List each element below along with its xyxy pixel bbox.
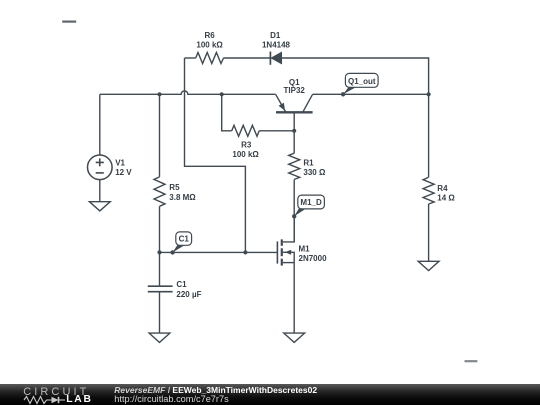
wire R4 bottom to ground (428, 204, 430, 261)
resistor R6 (196, 53, 224, 64)
svg-text:14 Ω: 14 Ω (437, 193, 455, 202)
wire R6 left lead (185, 57, 196, 59)
footer logo LAB (66, 394, 93, 405)
annotation dash top-left (62, 21, 76, 23)
svg-text:V1: V1 (115, 158, 125, 167)
label V1 value (115, 158, 132, 176)
net flag M1_D (294, 195, 324, 216)
node junction Q1 base / R3 / R1 (292, 129, 296, 133)
wire R5 top lead (159, 94, 161, 177)
node junction gate row / R5-C1 column (157, 250, 161, 254)
wire R3 branch from rail (222, 94, 232, 131)
svg-text:3.8 MΩ: 3.8 MΩ (169, 193, 196, 202)
ground below V1 (89, 202, 110, 211)
net flag Q1_out (343, 73, 378, 94)
svg-text:330 Ω: 330 Ω (303, 168, 326, 177)
transistor M1 (NMOS 2N7000) (277, 216, 294, 265)
label Q1 value (284, 78, 306, 95)
wire right column to R4 (428, 94, 430, 177)
wire C1 node down to capacitor (159, 252, 161, 285)
svg-text:R5: R5 (169, 183, 180, 192)
transistor Q1 (PNP TIP32) (276, 94, 313, 131)
svg-text:100 kΩ: 100 kΩ (196, 41, 223, 50)
svg-text:R4: R4 (437, 184, 448, 193)
wire V1 bottom lead (99, 180, 101, 202)
label C1 value (176, 280, 201, 299)
footer bar (0, 384, 540, 405)
label R3 value (232, 140, 259, 159)
svg-text:C1: C1 (179, 234, 190, 243)
resistor R4 (423, 177, 434, 204)
svg-text:TIP32: TIP32 (284, 86, 306, 95)
net flag C1 (173, 232, 192, 253)
label R5 value (169, 183, 196, 202)
wire M1 source to ground (293, 263, 295, 334)
net flag anchor Q1_out (341, 92, 345, 96)
wire R3 to Q1 base node (259, 130, 294, 132)
wire R6 left vertical down to gate row (crosses rail with hop) (185, 58, 246, 252)
net flag anchor C1 (170, 250, 174, 254)
label R6 value (196, 31, 223, 49)
svg-text:R3: R3 (241, 140, 252, 149)
svg-text:D1: D1 (270, 31, 281, 40)
resistor R5 (154, 177, 165, 206)
footer title text (114, 385, 317, 395)
ground below R4 (418, 261, 439, 270)
footer logo CIRCUIT (23, 386, 89, 398)
label R4 value (437, 184, 455, 202)
svg-text:R6: R6 (204, 31, 215, 40)
svg-text:12 V: 12 V (115, 168, 132, 177)
svg-text:220 µF: 220 µF (176, 290, 201, 299)
svg-text:C1: C1 (176, 280, 187, 289)
wire R5 bottom lead to C1 node (159, 206, 161, 252)
wire Q1 collector rail to right column (313, 93, 429, 95)
diode D1 (270, 52, 281, 65)
svg-text:100 kΩ: 100 kΩ (232, 150, 259, 159)
node junction gate row / R6 column (243, 250, 247, 254)
resistor R1 (289, 153, 300, 179)
resistor R3 (232, 125, 260, 136)
label M1 value (299, 245, 328, 263)
ground below M1 (284, 333, 305, 342)
wire top rail V1 to Q1 emitter with hop over R6 vertical (100, 91, 276, 94)
wire base node to R1 (293, 131, 295, 153)
wire R6 to D1 (224, 57, 271, 59)
label D1 value (262, 31, 291, 49)
net flag anchor M1_D (292, 214, 296, 218)
svg-text:Q1_out: Q1_out (348, 77, 376, 86)
wire gate row C1 node to M1 gate (160, 251, 278, 253)
svg-text:M1_D: M1_D (300, 198, 322, 207)
label R1 value (303, 159, 326, 178)
svg-text:1N4148: 1N4148 (262, 41, 291, 50)
voltage source V1 (88, 155, 113, 180)
svg-text:2N7000: 2N7000 (299, 254, 328, 263)
node junction rail-R3 (220, 92, 224, 96)
wire D1 to right column (282, 58, 429, 94)
node junction rail-R5 (157, 92, 161, 96)
svg-text:R1: R1 (303, 159, 314, 168)
ground below C1 (149, 333, 170, 342)
wire C1 bottom to ground (159, 292, 161, 333)
annotation dash bottom-right (465, 360, 478, 362)
capacitor C1 (148, 286, 173, 292)
svg-text:M1: M1 (299, 245, 311, 254)
node junction right column / Q1_out rail (427, 92, 431, 96)
footer logo resistor-diode glyph (23, 395, 67, 405)
wire R1 bottom to M1 drain (293, 179, 295, 242)
footer url text (114, 394, 228, 404)
wire V1 top lead (99, 94, 101, 155)
